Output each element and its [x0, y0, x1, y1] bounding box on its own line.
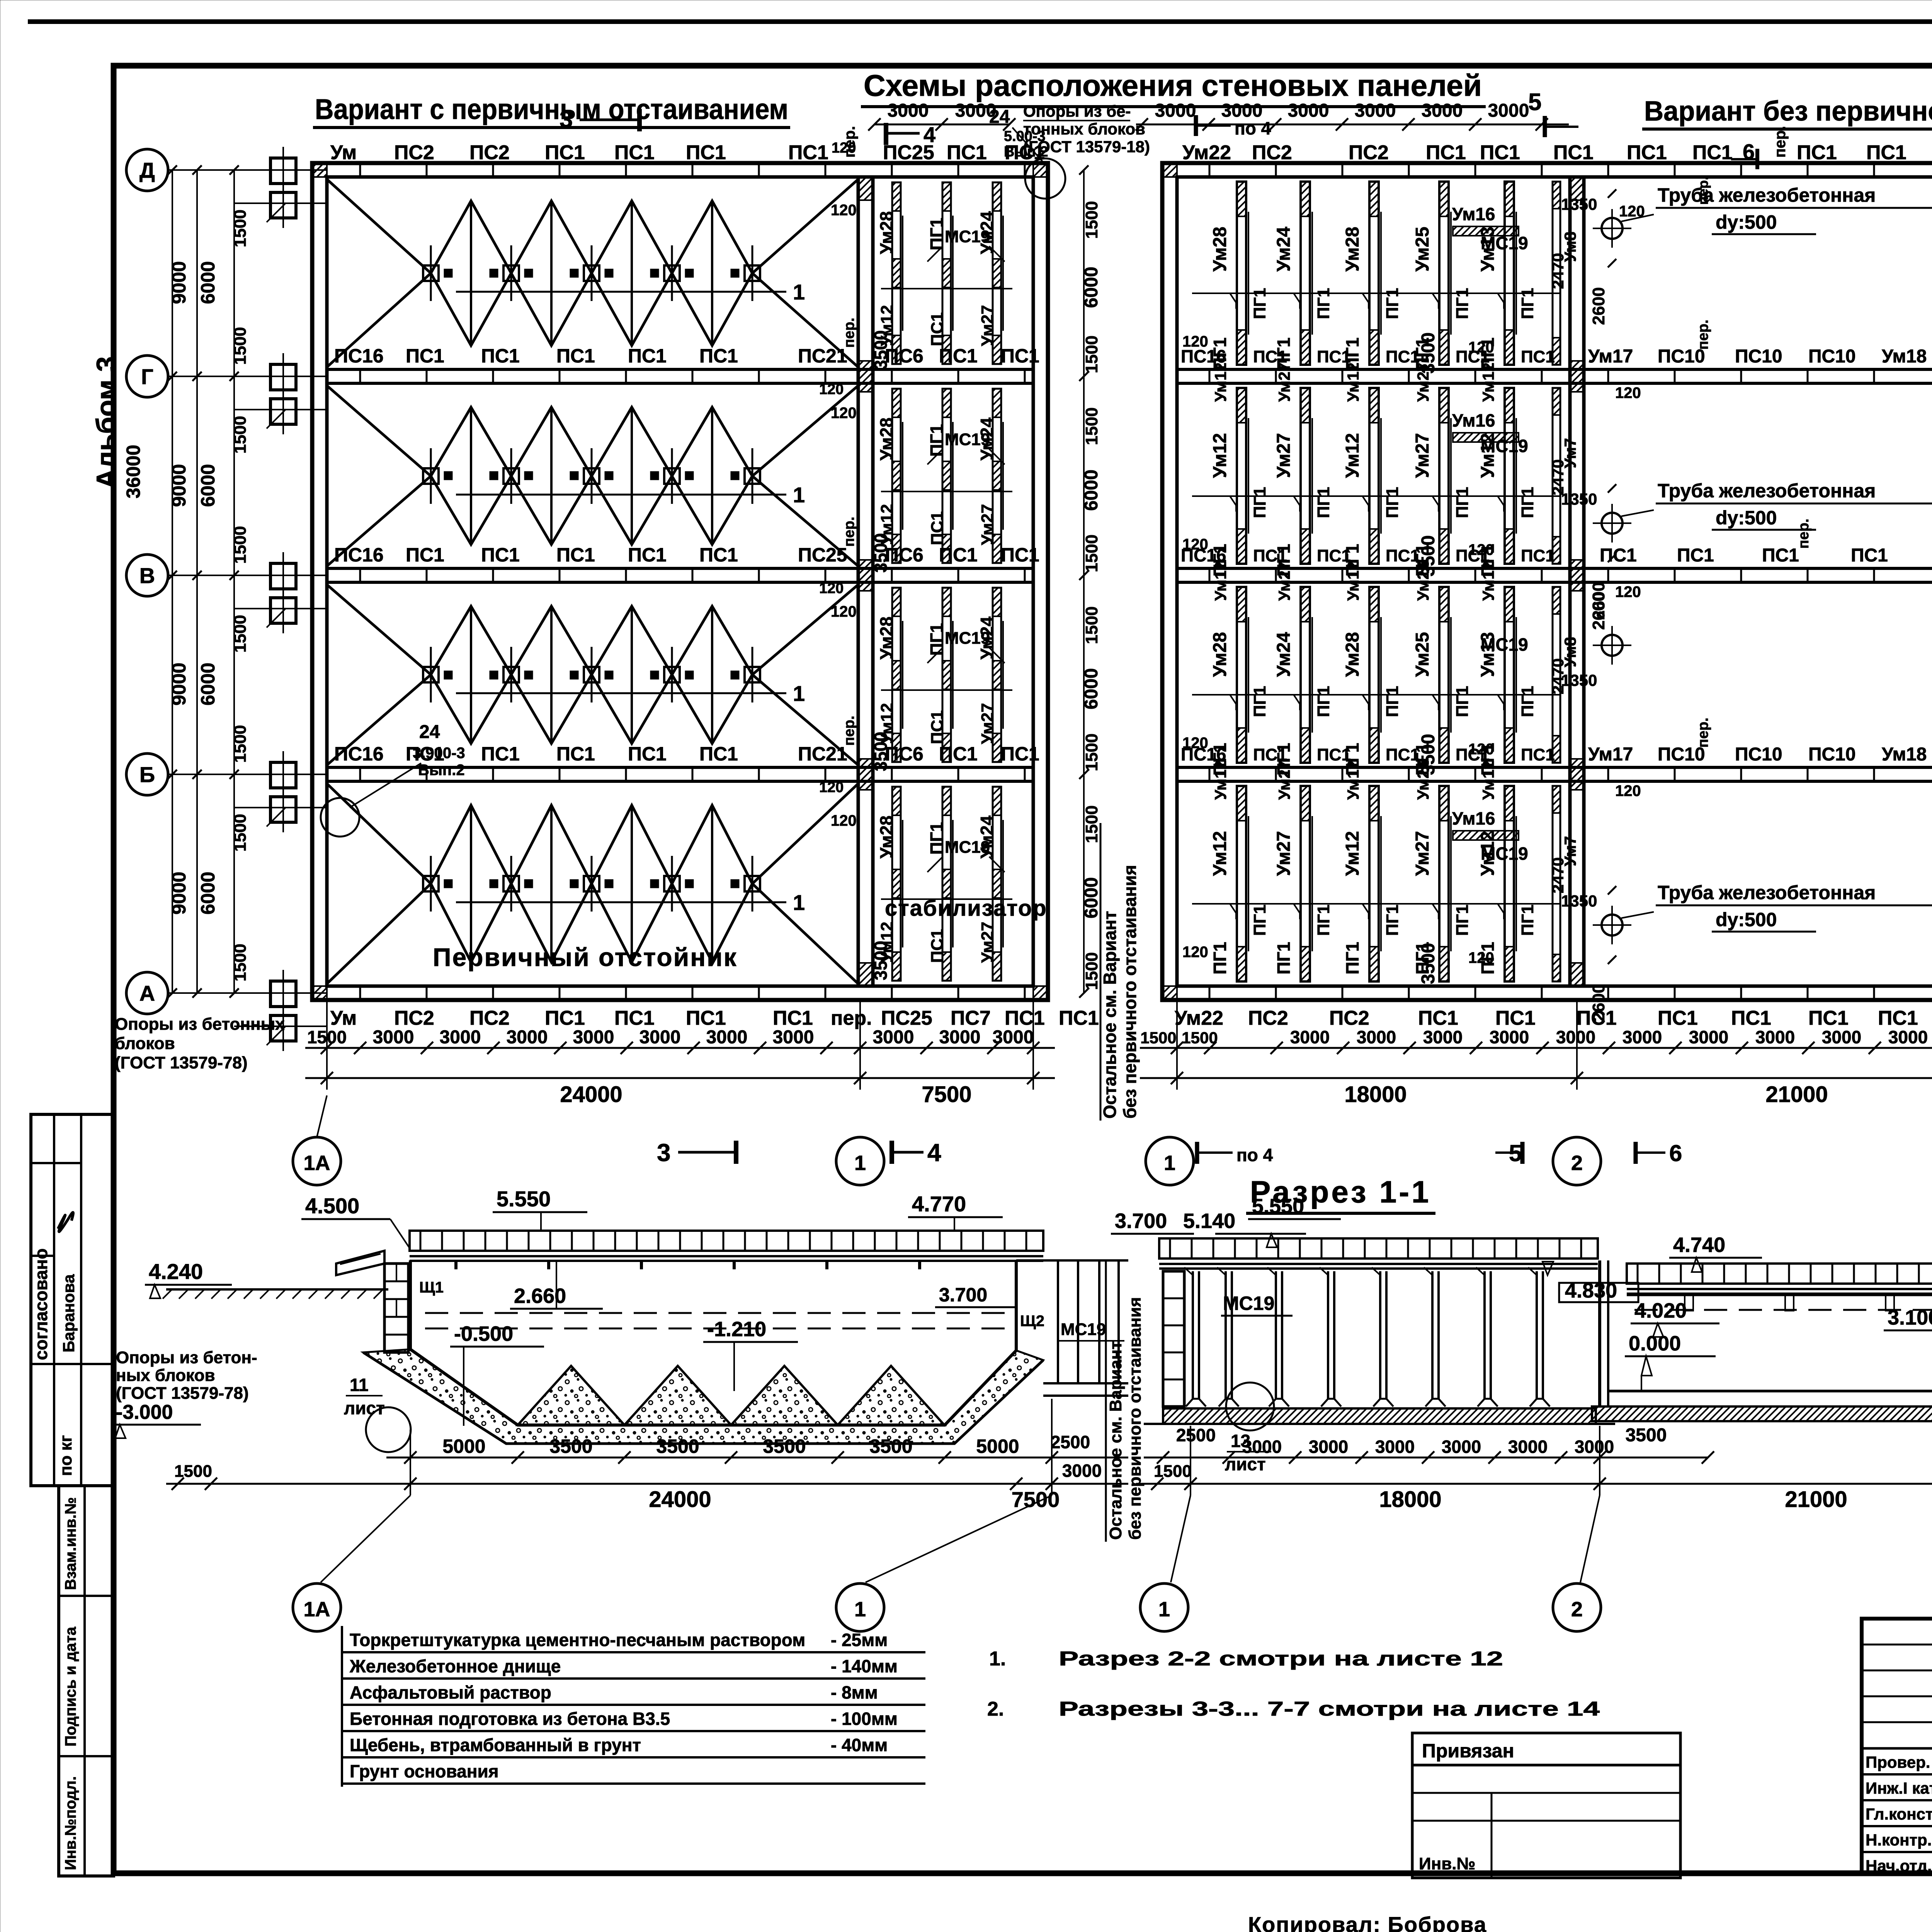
svg-text:ПС10: ПС10: [1735, 744, 1782, 765]
svg-text:Щебень, втрамбованный в грунт: Щебень, втрамбованный в грунт: [350, 1735, 641, 1755]
section A 1500/24000/7500 dims: [166, 1483, 1128, 1485]
plan A 24000/7500 dimension line: [305, 1077, 1055, 1079]
svg-text:Щ2: Щ2: [1020, 1313, 1044, 1330]
svg-text:dy:500: dy:500: [1716, 211, 1777, 233]
plan B inner wall rect: [1177, 177, 1932, 986]
svg-text:1500: 1500: [1082, 952, 1101, 990]
svg-text:3000: 3000: [1422, 100, 1463, 121]
svg-text:ПС1: ПС1: [947, 141, 987, 164]
svg-text:ПС1: ПС1: [1521, 745, 1555, 764]
svg-text:Ум12: Ум12: [1479, 362, 1497, 402]
svg-text:1350: 1350: [1561, 671, 1597, 689]
svg-text:ПС1: ПС1: [628, 345, 667, 367]
svg-text:3.900-3: 3.900-3: [413, 745, 465, 762]
svg-text:120: 120: [831, 202, 857, 219]
svg-text:ПС1: ПС1: [1692, 141, 1733, 164]
svg-text:1350: 1350: [1561, 892, 1597, 910]
svg-text:1500: 1500: [174, 1462, 212, 1481]
svg-text:1500: 1500: [1140, 1029, 1176, 1047]
svg-text:Ум24: Ум24: [977, 211, 997, 254]
svg-text:ПС1: ПС1: [773, 1007, 813, 1029]
svg-text:4.240: 4.240: [149, 1259, 203, 1284]
svg-text:ПС2: ПС2: [1329, 1007, 1369, 1029]
svg-text:ПГ1: ПГ1: [1518, 288, 1537, 319]
svg-text:Ум12: Ум12: [1211, 362, 1230, 402]
section A left wall brick column: [384, 1264, 408, 1352]
svg-text:Ум12: Ум12: [1342, 433, 1363, 478]
svg-text:Ум13: Ум13: [1478, 227, 1498, 272]
svg-text:Грунт основания: Грунт основания: [350, 1761, 499, 1781]
svg-text:2500: 2500: [1051, 1432, 1090, 1452]
svg-text:Н.контр.: Н.контр.: [1866, 1831, 1932, 1849]
svg-text:ПС1: ПС1: [614, 1007, 655, 1029]
section A deck band: [410, 1231, 1043, 1251]
svg-text:пер.: пер.: [1796, 519, 1812, 549]
svg-text:1500: 1500: [231, 944, 250, 981]
svg-text:ПС1: ПС1: [928, 710, 947, 744]
svg-text:9000: 9000: [168, 464, 190, 507]
plan B bottom grid circles: [1146, 1137, 1194, 1185]
svg-text:-3.000: -3.000: [116, 1401, 173, 1423]
svg-text:ПС1: ПС1: [1521, 347, 1555, 366]
svg-text:9000: 9000: [168, 872, 190, 915]
svg-text:Ум12: Ум12: [878, 922, 896, 963]
section B aerotank dashed water line: [1634, 1309, 1932, 1311]
svg-text:ПГ1: ПГ1: [1250, 686, 1269, 717]
svg-text:ПГ1: ПГ1: [1383, 288, 1402, 319]
svg-text:без первичного отстаивания: без первичного отстаивания: [1126, 1297, 1145, 1540]
svg-text:- 40мм: - 40мм: [831, 1735, 888, 1755]
svg-text:Ум12: Ум12: [1479, 561, 1497, 601]
svg-text:Ум28: Ум28: [1342, 227, 1363, 272]
svg-text:ПГ1: ПГ1: [1453, 288, 1472, 319]
svg-text:Ум12: Ум12: [1344, 362, 1362, 402]
svg-text:3000: 3000: [1442, 1437, 1481, 1457]
svg-text:1500: 1500: [231, 526, 250, 564]
svg-text:ПГ1: ПГ1: [1314, 288, 1333, 319]
svg-text:ПС1: ПС1: [1878, 1007, 1918, 1029]
svg-text:ПС1: ПС1: [1480, 141, 1520, 164]
svg-text:Баранова: Баранова: [60, 1274, 78, 1352]
svg-text:24000: 24000: [560, 1082, 622, 1107]
svg-text:3000: 3000: [1357, 1027, 1396, 1047]
svg-text:Труба железобетонная: Труба железобетонная: [1658, 184, 1876, 206]
svg-text:Ум27: Ум27: [1275, 561, 1293, 601]
svg-text:ПС21: ПС21: [798, 743, 847, 765]
svg-text:Ум12: Ум12: [1210, 831, 1230, 876]
svg-text:120: 120: [819, 580, 844, 597]
svg-text:1: 1: [793, 890, 805, 915]
svg-text:ПГ1: ПГ1: [1250, 487, 1269, 518]
section B left wall: [1163, 1271, 1184, 1406]
svg-text:Ум27: Ум27: [1274, 831, 1294, 876]
svg-text:1500: 1500: [1082, 805, 1101, 843]
svg-text:-1.210: -1.210: [707, 1318, 766, 1341]
svg-text:ных блоков: ных блоков: [116, 1366, 215, 1385]
materials list table: [341, 1626, 343, 1787]
svg-text:3000: 3000: [1242, 1437, 1282, 1457]
section B stabilizer interior panels: [1192, 1271, 1194, 1399]
svg-text:ПС2: ПС2: [394, 141, 434, 164]
plan B wall joint ticks: [1209, 163, 1211, 177]
svg-text:ПС25: ПС25: [798, 544, 847, 566]
plan A stabilizer zone panel columns: [892, 182, 901, 364]
svg-text:2600: 2600: [1589, 582, 1608, 620]
svg-text:Ум12: Ум12: [1478, 433, 1498, 478]
svg-text:ПС16: ПС16: [334, 743, 384, 765]
plan A bottom dimension chain: [305, 1047, 1055, 1049]
svg-text:1350: 1350: [1561, 490, 1597, 508]
svg-text:21000: 21000: [1765, 1082, 1828, 1107]
svg-text:5.550: 5.550: [1252, 1195, 1304, 1218]
svg-text:Ум27: Ум27: [1275, 362, 1293, 402]
svg-text:2600: 2600: [1589, 287, 1608, 325]
svg-text:Щ1: Щ1: [419, 1279, 444, 1296]
svg-text:1А: 1А: [303, 1598, 330, 1621]
svg-text:ПС1: ПС1: [1553, 141, 1594, 164]
svg-text:3000: 3000: [1221, 100, 1263, 121]
svg-text:ПГ1: ПГ1: [927, 218, 947, 250]
svg-text:5.140: 5.140: [1183, 1209, 1235, 1233]
svg-text:120: 120: [1615, 583, 1641, 600]
svg-text:ПС1: ПС1: [1797, 141, 1837, 164]
svg-text:3000: 3000: [1888, 1027, 1928, 1047]
svg-text:Труба железобетонная: Труба железобетонная: [1658, 480, 1876, 502]
plan B stabilizer interior panel columns: [1237, 182, 1246, 365]
svg-text:1500: 1500: [231, 615, 250, 653]
привязан box: [1412, 1733, 1680, 1765]
svg-text:Ум12: Ум12: [1479, 760, 1497, 800]
svg-text:ПС10: ПС10: [1735, 346, 1782, 367]
svg-text:3000: 3000: [873, 1027, 914, 1048]
svg-text:Бетонная подготовка из бетона: Бетонная подготовка из бетона В3.5: [350, 1709, 670, 1729]
svg-text:ПС1: ПС1: [614, 141, 655, 164]
svg-text:Ум27: Ум27: [1274, 433, 1294, 478]
section A left roof slope: [336, 1251, 384, 1275]
svg-text:3: 3: [657, 1139, 671, 1167]
plan A inner horizontal walls: [327, 368, 1033, 371]
section B 13-лист note: [1226, 1383, 1274, 1430]
svg-text:3000: 3000: [888, 100, 929, 121]
svg-text:ПС1: ПС1: [686, 141, 726, 164]
svg-text:Ум28: Ум28: [1210, 227, 1230, 272]
svg-text:1А: 1А: [303, 1151, 330, 1175]
svg-text:3.100: 3.100: [1888, 1306, 1932, 1329]
svg-text:3500: 3500: [1626, 1425, 1667, 1446]
svg-text:2600: 2600: [1589, 984, 1608, 1022]
svg-text:Ум12: Ум12: [1344, 561, 1362, 601]
left stamp lower table: [59, 1486, 114, 1876]
plan A sludge scraper diamonds in 4 strips: [327, 179, 431, 273]
svg-text:5000: 5000: [442, 1435, 485, 1457]
svg-text:3000: 3000: [1689, 1027, 1728, 1047]
svg-text:9000: 9000: [168, 261, 190, 304]
svg-text:ПГ1: ПГ1: [1342, 942, 1362, 975]
section B deck band stabilizer: [1159, 1238, 1598, 1259]
svg-text:пер.: пер.: [841, 517, 857, 547]
svg-text:3000: 3000: [1309, 1437, 1348, 1457]
svg-text:Ум28: Ум28: [1210, 632, 1230, 677]
svg-text:3000: 3000: [639, 1027, 681, 1048]
svg-text:Ум28: Ум28: [1342, 632, 1363, 677]
plan B inner horizontal walls: [1177, 368, 1932, 371]
svg-text:Ум: Ум: [330, 141, 357, 164]
svg-text:Ум25: Ум25: [1412, 632, 1433, 677]
svg-text:Ум27: Ум27: [978, 703, 997, 744]
svg-text:-0.500: -0.500: [454, 1322, 513, 1345]
svg-text:ПС1: ПС1: [928, 511, 947, 545]
svg-text:3000: 3000: [1822, 1027, 1861, 1047]
svg-text:ПС6: ПС6: [885, 544, 923, 566]
svg-text:3000: 3000: [573, 1027, 614, 1048]
svg-text:120: 120: [831, 405, 857, 422]
svg-text:ПГ1: ПГ1: [1518, 487, 1537, 518]
svg-text:ПС1: ПС1: [628, 544, 667, 566]
svg-text:3000: 3000: [706, 1027, 748, 1048]
svg-text:Разрез 2-2 смотри на листе 12: Разрез 2-2 смотри на листе 12: [1059, 1648, 1503, 1670]
svg-text:3000: 3000: [993, 1027, 1034, 1048]
svg-text:Взам.инв.№: Взам.инв.№: [62, 1497, 79, 1590]
svg-text:4.740: 4.740: [1673, 1233, 1725, 1257]
svg-text:ПГ1: ПГ1: [1518, 686, 1537, 717]
svg-text:3000: 3000: [1375, 1437, 1415, 1457]
svg-text:ПС16: ПС16: [334, 345, 384, 367]
svg-text:ПС1: ПС1: [1001, 345, 1039, 367]
svg-text:ПС1: ПС1: [556, 345, 595, 367]
svg-text:ПГ1: ПГ1: [927, 822, 947, 855]
svg-text:тонных блоков: тонных блоков: [1023, 120, 1145, 138]
svg-text:21000: 21000: [1785, 1487, 1847, 1512]
plan A outer wall rect: [312, 163, 1048, 1000]
plan A bottom grid circles 1A and 1: [293, 1137, 341, 1185]
svg-text:Вариант без первичного отстаив: Вариант без первичного отстаивания: [1644, 96, 1932, 127]
svg-text:120: 120: [832, 140, 856, 156]
svg-text:3000: 3000: [939, 1027, 981, 1048]
svg-text:Труба железобетонная: Труба железобетонная: [1658, 882, 1876, 903]
title block signature table: [1862, 1619, 1932, 1873]
svg-text:3000: 3000: [1290, 1027, 1330, 1047]
svg-text:ПГ1: ПГ1: [927, 623, 947, 656]
svg-text:ПГ1: ПГ1: [1478, 942, 1498, 975]
svg-text:3000: 3000: [1508, 1437, 1548, 1457]
svg-text:пер.: пер.: [1772, 126, 1789, 158]
svg-text:1500: 1500: [231, 327, 250, 365]
svg-text:ПС1: ПС1: [1495, 1007, 1536, 1029]
svg-text:пер.: пер.: [1695, 320, 1711, 350]
section B 1500/18000/21000 dims: [1136, 1483, 1932, 1485]
svg-text:ПС1: ПС1: [1600, 545, 1637, 566]
svg-text:Ум18: Ум18: [1882, 744, 1927, 765]
section A right stabilizer wall panels: [1057, 1260, 1059, 1383]
plan B vertical divider wall stabilizer/aerotank: [1568, 177, 1572, 986]
svg-text:120: 120: [819, 779, 844, 796]
svg-text:Ум27: Ум27: [978, 504, 997, 545]
svg-text:ПС7: ПС7: [951, 1007, 991, 1029]
svg-text:Ум12: Ум12: [1478, 831, 1498, 876]
svg-text:Ум12: Ум12: [1342, 831, 1363, 876]
svg-text:120: 120: [831, 812, 857, 829]
svg-text:dy:500: dy:500: [1716, 507, 1777, 529]
section A sludge hopper triangles: [518, 1366, 624, 1425]
svg-text:1500: 1500: [1154, 1462, 1192, 1481]
svg-text:Ум27: Ум27: [1414, 362, 1432, 402]
svg-text:Ум7: Ум7: [1561, 438, 1579, 468]
svg-text:ПС1: ПС1: [481, 544, 520, 566]
svg-text:ПГ1: ПГ1: [1453, 686, 1472, 717]
svg-text:3000: 3000: [440, 1027, 481, 1048]
plan B aerotank pipes (труба железобетонная): [1602, 635, 1622, 656]
svg-text:ПС1: ПС1: [1731, 1007, 1771, 1029]
svg-text:3.700: 3.700: [1115, 1209, 1167, 1233]
svg-text:Ум27: Ум27: [1412, 831, 1433, 876]
svg-text:18000: 18000: [1344, 1082, 1406, 1107]
svg-text:ПС21: ПС21: [798, 345, 847, 367]
svg-text:4.500: 4.500: [305, 1194, 359, 1218]
svg-text:Ум12: Ум12: [878, 703, 896, 744]
svg-text:ПС2: ПС2: [469, 1007, 510, 1029]
svg-text:dy:500: dy:500: [1716, 909, 1777, 930]
svg-text:Ум28: Ум28: [876, 815, 896, 859]
svg-text:ПС1: ПС1: [1808, 1007, 1849, 1029]
svg-text:ПГ1: ПГ1: [1274, 942, 1294, 975]
section B bottom dims: [1144, 1457, 1623, 1459]
svg-text:6000: 6000: [1081, 469, 1102, 511]
plan A inner wall rect: [327, 177, 1033, 986]
svg-text:пер.: пер.: [841, 716, 857, 746]
svg-text:ПС1: ПС1: [1005, 1007, 1045, 1029]
svg-text:- 140мм: - 140мм: [831, 1656, 898, 1676]
svg-text:ПС1: ПС1: [788, 141, 828, 164]
section mark 4 bottom: [889, 1141, 894, 1164]
svg-text:3: 3: [560, 106, 573, 133]
svg-text:МС19: МС19: [1223, 1293, 1274, 1314]
svg-text:1: 1: [854, 1598, 866, 1621]
svg-text:ПС1: ПС1: [1001, 743, 1039, 765]
svg-text:5000: 5000: [976, 1435, 1019, 1457]
plan A right tank boundary wall: [857, 177, 860, 986]
section A grid circles: [293, 1583, 341, 1631]
svg-text:ПС2: ПС2: [1248, 1007, 1288, 1029]
svg-text:ПГ1: ПГ1: [1383, 905, 1402, 936]
svg-text:ПГ1: ПГ1: [1210, 942, 1230, 975]
svg-text:пер.: пер.: [831, 1007, 872, 1029]
svg-text:без первичного отстаивания: без первичного отстаивания: [1120, 865, 1140, 1119]
svg-text:ПС1: ПС1: [1426, 141, 1466, 164]
svg-text:Ум24: Ум24: [1274, 226, 1294, 272]
svg-text:ПС1: ПС1: [939, 345, 978, 367]
plan B bottom dimension chain: [1140, 1047, 1932, 1049]
svg-text:ПГ1: ПГ1: [1383, 487, 1402, 518]
svg-text:7500: 7500: [922, 1082, 971, 1107]
section A internal columns under deck: [454, 1260, 457, 1269]
section A water dashed lines: [425, 1312, 1005, 1314]
svg-text:120: 120: [819, 381, 844, 398]
svg-text:Г: Г: [141, 364, 153, 389]
svg-text:ПГ1: ПГ1: [1518, 905, 1537, 936]
svg-text:3000: 3000: [1490, 1027, 1529, 1047]
svg-text:Ум22: Ум22: [1182, 141, 1231, 164]
svg-text:ПС1: ПС1: [556, 743, 595, 765]
svg-text:Торкретштукатурка цементно-пес: Торкретштукатурка цементно-песчаным раст…: [350, 1630, 805, 1650]
svg-text:ПС1: ПС1: [699, 544, 738, 566]
svg-text:Ум13: Ум13: [1478, 632, 1498, 677]
svg-text:0.000: 0.000: [1629, 1332, 1681, 1355]
svg-text:ПГ1: ПГ1: [1412, 942, 1432, 975]
plan A wall panel joint ticks top and bottom: [359, 163, 361, 177]
section B grid circles: [1140, 1583, 1188, 1631]
svg-text:24: 24: [419, 722, 440, 742]
svg-text:ПГ1: ПГ1: [1383, 686, 1402, 717]
svg-text:1: 1: [1164, 1151, 1175, 1175]
svg-text:3000: 3000: [373, 1027, 414, 1048]
bottom section marks по4 5 6 7: [1195, 1142, 1199, 1164]
svg-text:2: 2: [1571, 1598, 1583, 1621]
svg-text:Опоры из бетонных: Опоры из бетонных: [115, 1015, 285, 1034]
svg-text:ПГ1: ПГ1: [1314, 686, 1333, 717]
svg-text:Ум27: Ум27: [1275, 760, 1293, 800]
plan B 18000/21000/9000 dimension line: [1140, 1077, 1932, 1079]
svg-text:1500: 1500: [1082, 606, 1101, 644]
svg-text:ПС1: ПС1: [939, 544, 978, 566]
svg-text:2: 2: [1571, 1151, 1583, 1175]
svg-text:ПС1: ПС1: [545, 1007, 585, 1029]
svg-text:6000: 6000: [197, 663, 219, 706]
svg-text:ПГ1: ПГ1: [1314, 905, 1333, 936]
svg-text:1: 1: [793, 483, 805, 507]
svg-text:согласовано: согласовано: [31, 1248, 51, 1360]
svg-text:Ум24: Ум24: [977, 616, 997, 660]
svg-text:120: 120: [831, 603, 857, 620]
svg-text:ПС16: ПС16: [334, 544, 384, 566]
svg-text:пер.: пер.: [841, 318, 857, 348]
svg-text:3000: 3000: [1755, 1027, 1795, 1047]
sheet top edge line: [28, 19, 1932, 24]
svg-text:1500: 1500: [231, 416, 250, 454]
svg-text:ПС2: ПС2: [1349, 141, 1389, 164]
svg-text:Подпись и дата: Подпись и дата: [62, 1626, 79, 1747]
svg-text:4: 4: [927, 1139, 941, 1167]
svg-text:6000: 6000: [1081, 267, 1102, 308]
svg-text:Ум27: Ум27: [1412, 433, 1433, 478]
plan A dim extension lines: [326, 1000, 328, 1090]
svg-text:Ум12: Ум12: [1211, 760, 1230, 800]
svg-text:ПС1: ПС1: [406, 544, 444, 566]
svg-text:ПГ1: ПГ1: [1250, 905, 1269, 936]
plan B left vertical dim chain: [1083, 170, 1085, 993]
svg-text:Ум17: Ум17: [1588, 346, 1633, 367]
svg-text:ПС1: ПС1: [1521, 546, 1555, 565]
svg-text:ПС1: ПС1: [686, 1007, 726, 1029]
svg-text:2.660: 2.660: [514, 1284, 566, 1308]
svg-text:1500: 1500: [231, 725, 250, 763]
svg-text:4.770: 4.770: [912, 1192, 966, 1216]
svg-text:ПС1: ПС1: [1627, 141, 1667, 164]
svg-text:ПС1: ПС1: [545, 141, 585, 164]
plan A corner hatch blocks: [312, 163, 327, 177]
vertical note right of section A: [1105, 1262, 1107, 1542]
svg-text:1500: 1500: [1082, 201, 1101, 239]
plan B outer wall rect: [1162, 163, 1932, 1000]
svg-text:3000: 3000: [1355, 100, 1396, 121]
svg-text:ПС1: ПС1: [1677, 545, 1714, 566]
svg-text:по 4: по 4: [1236, 1145, 1273, 1165]
svg-text:3000: 3000: [773, 1027, 814, 1048]
svg-text:3000: 3000: [1488, 100, 1529, 121]
svg-text:3.700: 3.700: [939, 1284, 987, 1306]
svg-text:120: 120: [1615, 384, 1641, 401]
plan A 1500-offset lines: [234, 202, 327, 204]
svg-text:Ум22: Ум22: [1175, 1007, 1223, 1029]
